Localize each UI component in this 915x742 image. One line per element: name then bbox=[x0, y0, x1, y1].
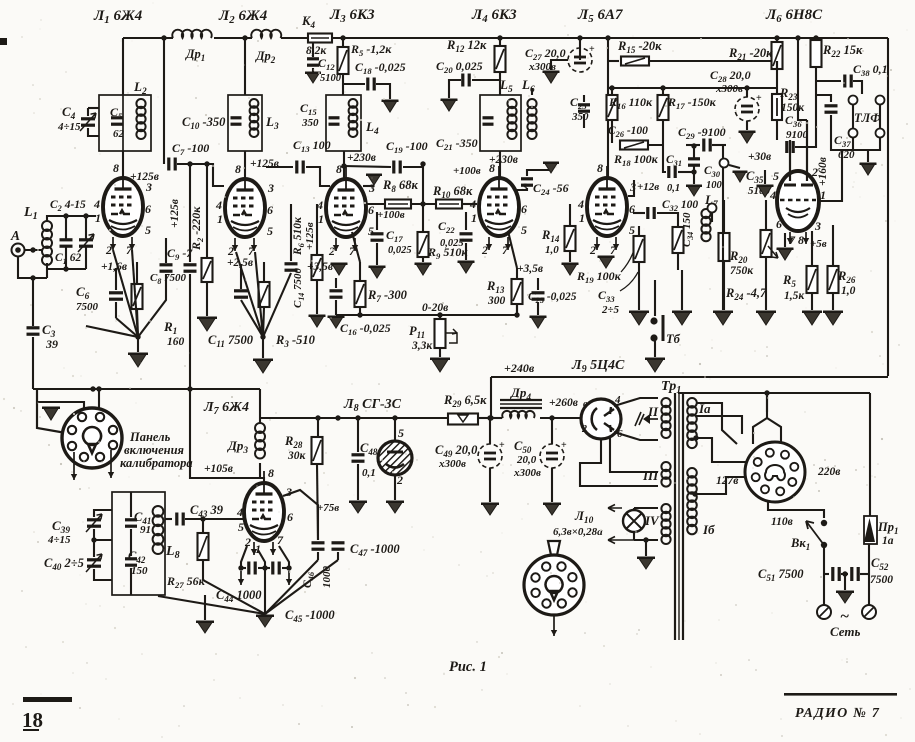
svg-text:2: 2 bbox=[396, 473, 403, 487]
svg-text:Л8 СГ-3С: Л8 СГ-3С bbox=[343, 397, 402, 414]
svg-text:Л1 6Ж4: Л1 6Ж4 bbox=[93, 8, 143, 26]
capacitor C29 9100 bbox=[686, 144, 700, 146]
svg-text:3: 3 bbox=[521, 180, 528, 194]
svg-text:2÷5: 2÷5 bbox=[601, 304, 620, 316]
wire R13 to line bbox=[516, 304, 518, 315]
wire t4 pin8 bbox=[499, 151, 501, 178]
resistor R17 150k bbox=[662, 88, 664, 95]
svg-text:1: 1 bbox=[579, 211, 585, 225]
svg-text:Л5 6А7: Л5 6А7 bbox=[577, 7, 623, 25]
svg-text:+125в: +125в bbox=[130, 171, 159, 183]
svg-text:5: 5 bbox=[267, 224, 273, 238]
ground R9 bbox=[416, 263, 431, 275]
capacitor C16 bbox=[335, 278, 337, 288]
svg-text:3,3к: 3,3к bbox=[411, 340, 433, 352]
wires III to L9 filament bbox=[580, 439, 658, 486]
svg-text:С16 -0,025: С16 -0,025 bbox=[340, 321, 391, 337]
wire drop mid chain bbox=[422, 164, 424, 232]
wire 0-20v line bbox=[336, 314, 517, 316]
svg-text:7: 7 bbox=[277, 533, 284, 547]
svg-text:3: 3 bbox=[814, 219, 821, 233]
svg-text:С7 -100: С7 -100 bbox=[172, 141, 209, 157]
resistor R19 vertical bbox=[634, 236, 645, 262]
resistor R5 1.2k bbox=[342, 38, 344, 47]
wire C29 right down bbox=[722, 146, 724, 209]
wire C44 to fan bbox=[264, 568, 266, 614]
choke Dr2 bbox=[251, 30, 281, 38]
capacitor C51 C52 series bbox=[824, 573, 829, 575]
svg-text:6: 6 bbox=[521, 202, 527, 216]
svg-text:х300в: х300в bbox=[513, 467, 541, 479]
winding III bbox=[661, 462, 670, 471]
wire fan stem t1 bbox=[135, 334, 140, 339]
resistor R13 300 bbox=[508, 231, 517, 268]
ground R14 bbox=[563, 263, 578, 275]
potentiometer P11 3.3k bbox=[439, 315, 441, 319]
caption RADIO line bbox=[784, 693, 897, 696]
choke Dr3 bbox=[259, 389, 261, 423]
svg-text:С43 39: С43 39 bbox=[190, 503, 224, 519]
svg-text:+260в: +260в bbox=[549, 397, 578, 409]
capacitor C6 7500 bbox=[115, 268, 117, 290]
jack near C30 bbox=[720, 159, 729, 168]
wires fan t1 cathode bbox=[116, 318, 138, 337]
svg-text:С8 7500: С8 7500 bbox=[150, 272, 187, 286]
svg-text:750к: 750к bbox=[730, 265, 754, 277]
capacitor C46 C47 1000 bbox=[312, 541, 325, 544]
resistor R22 15k bbox=[815, 38, 817, 40]
svg-text:+125в: +125в bbox=[250, 158, 279, 170]
svg-text:+230в: +230в bbox=[347, 152, 376, 164]
svg-text:С28 20,0: С28 20,0 bbox=[710, 68, 751, 84]
svg-text:Л3 6К3: Л3 6К3 bbox=[329, 7, 375, 25]
svg-text:R27 56к: R27 56к bbox=[166, 574, 206, 590]
socket calibrator panel bbox=[62, 408, 122, 468]
svg-text:1,0: 1,0 bbox=[841, 285, 856, 297]
coil L5 bbox=[507, 99, 516, 108]
svg-text:4÷15: 4÷15 bbox=[57, 121, 81, 133]
wires fan L7 cathode bbox=[203, 560, 265, 614]
coil L1 bbox=[42, 221, 52, 231]
svg-text:Iб: Iб bbox=[702, 522, 715, 537]
resistor R28 30k bbox=[317, 418, 319, 437]
terminal Tb bbox=[654, 280, 656, 316]
resistor R27 56k bbox=[202, 519, 204, 533]
svg-text:РАДИО № 7: РАДИО № 7 bbox=[795, 706, 880, 721]
wires taps to socket bbox=[766, 393, 768, 418]
svg-text:7500: 7500 bbox=[76, 301, 99, 313]
svg-text:0,025: 0,025 bbox=[388, 245, 412, 256]
tank box L4 bbox=[326, 95, 361, 151]
tube U3 L3 6K3 bbox=[326, 179, 366, 237]
svg-text:7: 7 bbox=[502, 243, 509, 257]
svg-text:С24 -56: С24 -56 bbox=[533, 181, 569, 197]
svg-text:+3,5в: +3,5в bbox=[307, 261, 333, 273]
svg-text:1,0: 1,0 bbox=[545, 244, 559, 256]
resistor R12 12k bbox=[499, 38, 501, 46]
svg-text:+230в: +230в bbox=[489, 154, 518, 166]
svg-text:R18 100к: R18 100к bbox=[613, 152, 659, 168]
svg-text:R2 -220к: R2 -220к bbox=[189, 206, 205, 251]
ground under tank box bbox=[204, 595, 206, 620]
resistor R25 1.5k bbox=[811, 231, 813, 266]
svg-text:R24 -4,7: R24 -4,7 bbox=[725, 286, 767, 302]
capacitor C11 7500 bbox=[240, 264, 242, 289]
svg-text:+100в: +100в bbox=[453, 165, 481, 177]
svg-text:8: 8 bbox=[268, 466, 274, 480]
tube U1 L1 6Zh4 bbox=[103, 178, 143, 236]
svg-text:6,3в×0,28а: 6,3в×0,28а bbox=[553, 526, 603, 538]
svg-text:1: 1 bbox=[820, 188, 826, 202]
wire calib bus bbox=[33, 388, 260, 390]
ground t1 fan bbox=[129, 353, 147, 367]
capacitor C40 trimmer bbox=[93, 540, 95, 557]
coil L8 bbox=[153, 506, 164, 517]
svg-text:+: + bbox=[756, 93, 762, 104]
capacitor C7 100 coupling bbox=[163, 38, 165, 164]
svg-text:С26 -100: С26 -100 bbox=[608, 125, 648, 139]
capacitor C43 39 bbox=[165, 518, 172, 520]
svg-text:+1,6в: +1,6в bbox=[101, 261, 127, 273]
svg-text:20,0: 20,0 bbox=[516, 454, 537, 466]
ground R2 bbox=[198, 317, 216, 331]
ground C28 bbox=[746, 121, 748, 130]
svg-text:5: 5 bbox=[629, 223, 635, 237]
svg-text:350: 350 bbox=[571, 111, 589, 123]
svg-text:5: 5 bbox=[368, 224, 374, 238]
svg-text:3: 3 bbox=[267, 181, 274, 195]
svg-text:С10 -350: С10 -350 bbox=[182, 115, 226, 131]
capacitor C30 100 bbox=[693, 146, 695, 158]
svg-text:С49 20,0: С49 20,0 bbox=[435, 443, 478, 459]
resistor under C32 bbox=[673, 227, 684, 253]
choke Dr4 bbox=[491, 417, 502, 419]
svg-text:6: 6 bbox=[287, 510, 293, 524]
wire L1 top to grid bbox=[47, 216, 96, 221]
arrows socket pins bbox=[73, 452, 75, 480]
capacitor C19 coupling t3-t4 bbox=[344, 166, 391, 167]
svg-text:С40 2÷5: С40 2÷5 bbox=[44, 556, 84, 572]
capacitor C21 350 bbox=[483, 116, 494, 119]
coil L2 bbox=[136, 99, 145, 108]
wire fan to gnd t2 bbox=[260, 334, 265, 339]
choke Dr1 bbox=[172, 30, 212, 38]
paper speckle texture bbox=[296, 113, 298, 115]
svg-text:2: 2 bbox=[227, 244, 234, 258]
ground C25 bbox=[531, 316, 546, 328]
capacitor C4 trimmer bbox=[88, 107, 99, 109]
capacitor C20 0.025 bbox=[472, 79, 500, 81]
wire grid junction line bbox=[47, 268, 86, 270]
svg-text:30к: 30к bbox=[287, 450, 307, 462]
svg-text:6: 6 bbox=[776, 217, 782, 231]
svg-text:127в: 127в bbox=[716, 475, 738, 487]
capacitor C28 electrolytic bbox=[746, 88, 748, 97]
resistor R14 bbox=[569, 204, 571, 226]
page number 18 bbox=[23, 697, 72, 702]
svg-text:R16 110к: R16 110к bbox=[608, 95, 653, 111]
svg-text:2: 2 bbox=[589, 243, 596, 257]
wire pin3 L7 right bbox=[283, 490, 318, 540]
ground tube5 heater bbox=[599, 256, 614, 268]
tank box L5 bbox=[480, 95, 521, 151]
svg-text:8: 8 bbox=[235, 162, 241, 176]
wire t1 pin8 lead bbox=[122, 151, 124, 178]
wire top B+ bus bbox=[123, 37, 173, 39]
ground t6 cathode bbox=[784, 233, 786, 247]
svg-text:1: 1 bbox=[217, 212, 223, 226]
grounds row under t5-t6 bbox=[638, 226, 640, 236]
wire t6 anode riser bbox=[798, 38, 807, 120]
svg-text:R8 68к: R8 68к bbox=[382, 178, 418, 194]
svg-text:III: III bbox=[642, 468, 659, 483]
svg-text:2: 2 bbox=[481, 243, 488, 257]
resistor R26 1.0 bbox=[832, 225, 834, 266]
ground tube3 cathode bbox=[332, 263, 347, 275]
winding Ib bbox=[687, 468, 697, 478]
svg-text:С38 0,1: С38 0,1 bbox=[853, 62, 888, 78]
wire riser t2 bbox=[244, 38, 246, 95]
svg-text:300: 300 bbox=[487, 295, 506, 307]
svg-text:R22 15к: R22 15к bbox=[822, 43, 863, 59]
wire anode riser t1 bbox=[122, 95, 124, 151]
capacitor C24 56 bbox=[517, 188, 527, 190]
svg-text:С20 0,025: С20 0,025 bbox=[436, 59, 483, 75]
ground TLF bbox=[852, 138, 854, 150]
phones TLF bbox=[849, 96, 858, 105]
svg-text:Рис. 1: Рис. 1 bbox=[449, 659, 487, 675]
svg-text:100: 100 bbox=[706, 180, 723, 191]
capacitor C18 0.025 bbox=[343, 83, 365, 85]
svg-text:С32 100: С32 100 bbox=[662, 199, 698, 213]
capacitor C2 4-15 trimmer bbox=[85, 216, 87, 239]
arrow socket bottom bbox=[553, 616, 555, 636]
svg-text:1: 1 bbox=[471, 211, 477, 225]
svg-text:91: 91 bbox=[140, 524, 151, 536]
ground R6 bbox=[310, 315, 325, 327]
ground C27 bbox=[551, 60, 568, 70]
capacitor C32 under t5 bbox=[633, 212, 645, 214]
resistor R1 160 bbox=[136, 262, 138, 284]
resistor chain R8 R10 bbox=[367, 203, 384, 205]
svg-text:7: 7 bbox=[610, 243, 617, 257]
wire right B+ riser bbox=[887, 38, 889, 376]
capacitor C17 bbox=[376, 212, 378, 230]
svg-text:6: 6 bbox=[267, 203, 273, 217]
wire intermediate bus y88 bbox=[608, 87, 777, 89]
svg-text:8: 8 bbox=[113, 161, 119, 175]
resistor R20 750k bbox=[723, 200, 725, 233]
svg-text:Л6 6Н8С: Л6 6Н8С bbox=[765, 7, 823, 25]
svg-text:150: 150 bbox=[131, 565, 148, 577]
fuse Pr1 bbox=[869, 393, 871, 516]
resistor R16 110k bbox=[611, 88, 613, 95]
tube U6 L6 6N8S double triode bbox=[777, 171, 819, 231]
capacitor C14 7500 bbox=[290, 204, 292, 261]
svg-text:включения: включения bbox=[124, 443, 185, 457]
svg-text:С51 7500: С51 7500 bbox=[758, 567, 804, 583]
arrow R24 bbox=[768, 246, 778, 258]
ground C49 bbox=[489, 468, 491, 502]
switch Vk1 bbox=[821, 520, 827, 526]
svg-text:С45 -1000: С45 -1000 bbox=[285, 608, 335, 624]
svg-text:+105в: +105в bbox=[204, 463, 233, 475]
svg-text:7: 7 bbox=[248, 244, 255, 258]
svg-text:5: 5 bbox=[773, 169, 779, 183]
svg-text:4÷15: 4÷15 bbox=[47, 534, 71, 546]
capacitor C15 350 bbox=[329, 116, 340, 119]
tank box L2 bbox=[99, 95, 151, 151]
svg-text:2: 2 bbox=[581, 424, 587, 435]
svg-text:R15 -20к: R15 -20к bbox=[617, 39, 662, 55]
svg-text:220в: 220в bbox=[817, 466, 840, 478]
capacitor C44 1000 pair bbox=[241, 546, 247, 568]
svg-text:Л2 6Ж4: Л2 6Ж4 bbox=[218, 8, 268, 26]
svg-text:+125в: +125в bbox=[169, 199, 181, 228]
printing mark left edge bbox=[0, 38, 7, 45]
svg-text:+75в: +75в bbox=[317, 502, 339, 514]
ground lamp bbox=[645, 540, 647, 556]
wire C40 junction bbox=[91, 537, 96, 542]
terminals Set' mains bbox=[823, 574, 825, 605]
wire t6 right pin1 bbox=[819, 150, 842, 201]
svg-text:IV: IV bbox=[644, 513, 660, 528]
ground L7 fan bbox=[257, 615, 273, 627]
svg-text:R7 -300: R7 -300 bbox=[367, 288, 408, 304]
svg-text:+30в: +30в bbox=[748, 151, 771, 163]
capacitor C50 electrolytic bbox=[551, 418, 553, 444]
svg-text:0,1: 0,1 bbox=[667, 183, 680, 194]
svg-text:С13 100: С13 100 bbox=[293, 138, 331, 154]
wire riser 240 bbox=[490, 377, 492, 418]
capacitor C42 150 bbox=[125, 557, 137, 560]
fan lines right bbox=[265, 560, 318, 614]
junction dots top bus bbox=[161, 35, 166, 40]
wire antenna bbox=[24, 249, 42, 251]
capacitor C10 350 bbox=[231, 116, 242, 119]
ground C30 bbox=[687, 185, 701, 196]
wire riser t1 to bus bbox=[122, 38, 124, 95]
coil L4 bbox=[349, 99, 358, 108]
svg-text:3: 3 bbox=[285, 485, 292, 499]
wire SG bus bbox=[260, 417, 448, 419]
tube U5 L5 6A7 bbox=[587, 178, 627, 236]
svg-text:С44 1000: С44 1000 bbox=[216, 588, 262, 604]
svg-text:5: 5 bbox=[521, 223, 527, 237]
wire t2 pin8 bbox=[244, 151, 246, 179]
ground Tb bbox=[646, 358, 664, 372]
wire socket right pin bbox=[98, 389, 100, 413]
svg-text:4: 4 bbox=[469, 197, 476, 211]
coil L3 bbox=[250, 99, 259, 108]
capacitor C37 620 bbox=[816, 95, 831, 102]
wires IV to lamp bbox=[634, 507, 658, 509]
svg-text:+160в: +160в bbox=[817, 157, 829, 186]
capacitor C26 100 bbox=[611, 128, 613, 143]
svg-text:0,025: 0,025 bbox=[440, 238, 464, 249]
capacitor C12 5100 bbox=[312, 43, 314, 57]
winding IV bbox=[661, 504, 670, 513]
capacitor C41 91 bbox=[125, 518, 137, 521]
svg-text:R29 6,5к: R29 6,5к bbox=[443, 393, 487, 409]
socket voltage selector bbox=[745, 442, 805, 502]
wire L7 box bbox=[190, 389, 264, 481]
ground jack bbox=[734, 171, 747, 182]
resistor R9 510k bbox=[418, 232, 429, 257]
svg-text:С18 -0,025: С18 -0,025 bbox=[355, 60, 406, 76]
winding II bbox=[661, 398, 670, 407]
svg-text:Панель: Панель bbox=[129, 430, 171, 444]
coil L6 bbox=[527, 99, 536, 108]
svg-text:R3 -510: R3 -510 bbox=[275, 333, 316, 349]
resistor R18 100k bbox=[620, 141, 648, 150]
tube U9 L9 5Ts4S rectifier bbox=[581, 399, 621, 439]
ground C17 bbox=[376, 262, 378, 265]
capacitor C27 electrolytic bbox=[579, 38, 581, 60]
resistor R23 150k bbox=[776, 61, 778, 94]
wire to C3 bbox=[18, 256, 47, 278]
svg-text:350: 350 bbox=[301, 117, 319, 129]
ground L8 tube bbox=[394, 475, 396, 500]
svg-text:8: 8 bbox=[597, 161, 603, 175]
capacitor C3 39 bbox=[27, 326, 40, 329]
capacitor C36 9100 bbox=[776, 120, 778, 140]
lamp L10 dial bbox=[633, 508, 635, 510]
svg-text:2: 2 bbox=[105, 243, 112, 257]
svg-text:5100: 5100 bbox=[320, 73, 342, 84]
ground C20 bbox=[442, 99, 457, 111]
svg-text:х300в: х300в bbox=[715, 83, 743, 95]
wires L9 to winding II bbox=[614, 398, 658, 406]
svg-text:620: 620 bbox=[838, 149, 855, 161]
svg-text:А: А bbox=[10, 228, 20, 243]
svg-text:С47 -1000: С47 -1000 bbox=[350, 542, 400, 558]
ground C48 bbox=[350, 501, 366, 513]
resistor R29 6.5k bbox=[448, 414, 478, 425]
capacitor C1 62 bbox=[65, 216, 67, 239]
svg-text:+100в: +100в bbox=[377, 209, 405, 221]
wires fan t2 bbox=[241, 300, 263, 337]
center tap ground II bbox=[648, 418, 658, 420]
svg-text:5: 5 bbox=[145, 223, 151, 237]
ground t3 screen bbox=[363, 185, 374, 187]
tank box L3 bbox=[228, 95, 262, 151]
capacitor C25 bbox=[537, 278, 539, 290]
capacitor C39 trimmer bbox=[94, 510, 112, 517]
svg-text:6: 6 bbox=[145, 202, 151, 216]
svg-text:160: 160 bbox=[167, 336, 185, 348]
ground C16 bbox=[329, 316, 344, 328]
svg-text:R10 68к: R10 68к bbox=[432, 184, 473, 200]
antenna terminal A bbox=[12, 244, 25, 257]
svg-text:~: ~ bbox=[840, 608, 849, 625]
svg-text:R5 -1,2к: R5 -1,2к bbox=[350, 42, 392, 58]
svg-text:1000: 1000 bbox=[321, 566, 333, 589]
svg-text:2: 2 bbox=[328, 244, 335, 258]
svg-text:+: + bbox=[589, 44, 595, 55]
svg-text:5: 5 bbox=[238, 520, 244, 534]
svg-text:1,5к: 1,5к bbox=[784, 290, 805, 302]
svg-text:С14 7500: С14 7500 bbox=[292, 268, 306, 308]
svg-text:+240в: +240в bbox=[504, 361, 535, 375]
svg-text:18: 18 bbox=[22, 708, 43, 732]
winding Ia bbox=[687, 398, 697, 408]
svg-text:110в: 110в bbox=[771, 516, 793, 528]
svg-text:С1 62: С1 62 bbox=[55, 252, 81, 266]
svg-text:6: 6 bbox=[368, 203, 374, 217]
transformer Tr1 core bbox=[674, 393, 676, 640]
svg-text:4: 4 bbox=[93, 197, 100, 211]
